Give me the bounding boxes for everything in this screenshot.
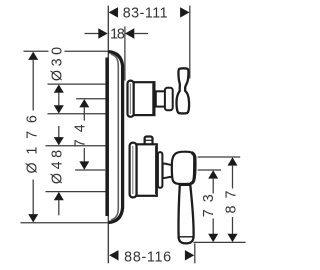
- volume control stop tab seam: [146, 139, 153, 141]
- dimension D30: [50, 43, 66, 113]
- cross handle bar: [177, 68, 190, 113]
- lever blade cap line: [179, 236, 193, 238]
- wire lever boss top extension y157: [198, 156, 241, 158]
- svg-text:Ø30: Ø30: [50, 43, 66, 81]
- volume control body: [137, 144, 157, 196]
- dimension 74: [73, 99, 90, 170]
- volume control flange contour: [132, 146, 134, 194]
- dimension 88-116 bottom: [109, 250, 194, 266]
- svg-text:18: 18: [110, 26, 125, 42]
- svg-text:Ø176: Ø176: [25, 107, 41, 173]
- wire plate bottom extension line y223: [21, 222, 109, 224]
- plate back rim edge: [105, 58, 108, 217]
- svg-text:87: 87: [224, 184, 240, 214]
- wire extension line handle right x190: [189, 6, 191, 79]
- wire plate top extension line y51: [24, 50, 49, 52]
- volume control front ring: [158, 152, 163, 188]
- lever boss side shade: [190, 153, 195, 184]
- dimension 83-111 top: [109, 6, 190, 22]
- wire top valve centerline y99: [76, 98, 106, 100]
- svg-text:73: 73: [201, 187, 217, 217]
- svg-text:88-116: 88-116: [124, 250, 172, 266]
- lever neck: [163, 164, 172, 179]
- wire d48 bottom extension line y192: [46, 191, 106, 193]
- svg-text:83-111: 83-111: [123, 6, 168, 22]
- dimension D176: [25, 52, 41, 223]
- thermostat sleeve body: [134, 82, 155, 115]
- wire d30 bottom extension line y114: [48, 113, 107, 115]
- escutcheon plate side profile: [107, 52, 123, 223]
- wire extension line lever tip x195: [194, 243, 196, 263]
- cross handle neck: [156, 91, 165, 106]
- dimension D48: [50, 126, 66, 215]
- dimension 73: [201, 170, 218, 242]
- dimension 18: [85, 26, 149, 42]
- cross handle base disc: [165, 88, 173, 111]
- wire lower valve centerline right y170: [198, 169, 221, 171]
- plate mid contour: [111, 54, 118, 220]
- lever blade: [178, 185, 193, 244]
- volume control stop tab: [145, 137, 153, 147]
- thermostat sleeve flange: [128, 81, 134, 117]
- wire lever bottom reference line y242: [193, 241, 245, 243]
- svg-text:Ø48: Ø48: [50, 146, 66, 184]
- volume control flange: [130, 143, 137, 198]
- wire d30 top extension line y84: [48, 83, 107, 85]
- svg-text:74: 74: [73, 117, 89, 147]
- wire lower valve centerline left y170: [75, 169, 105, 171]
- wire extension line sleeve front x125: [124, 27, 126, 81]
- thermostat sleeve flange contour: [129, 84, 131, 115]
- thermostat sleeve end cap line: [152, 83, 155, 114]
- lever boss: [172, 152, 196, 184]
- volume control end cap line: [155, 146, 157, 194]
- plate outline dome: [109, 52, 123, 223]
- wire wall line: [107, 6, 109, 264]
- dimension 87: [224, 157, 240, 242]
- wire d48 top extension line y146: [46, 145, 106, 147]
